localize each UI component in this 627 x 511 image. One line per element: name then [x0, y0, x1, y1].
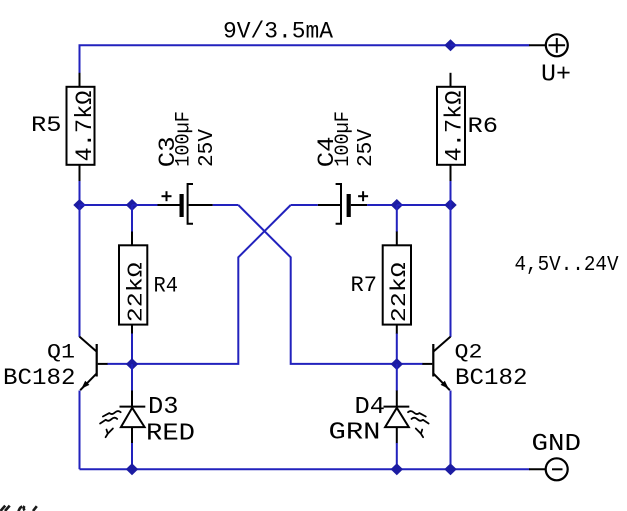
- svg-text:4,5V..24V: 4,5V..24V: [515, 253, 619, 277]
- wire: R6 bottom to node row: [450, 181, 452, 205]
- svg-text:R7: R7: [351, 273, 378, 298]
- wire: node to Q1 collector: [79, 205, 81, 337]
- capacitor C4: [318, 184, 368, 224]
- svg-text:R5: R5: [31, 113, 62, 138]
- wire: Q2 base lead: [397, 363, 423, 365]
- svg-text:25V: 25V: [354, 129, 378, 167]
- wire: crossing diagonal C3 to Q2 base: [238, 205, 396, 364]
- wire: R7 node to R6 column: [397, 204, 451, 206]
- svg-text:BC182: BC182: [3, 365, 76, 391]
- resistor R7: [383, 205, 411, 364]
- transistor Q1: [80, 337, 109, 391]
- wire: C4 left to crossing: [291, 204, 318, 206]
- wire: +9V top rail: [80, 45, 530, 205]
- wire: R4 node to C3: [132, 204, 158, 206]
- wire: node to R4 top: [80, 204, 133, 206]
- svg-text:22kΩ: 22kΩ: [389, 262, 412, 322]
- junction: top rail / R6: [444, 39, 456, 51]
- terminal U+ pin lead: [529, 44, 546, 46]
- wire: R5 bottom to node row: [79, 181, 81, 205]
- wire: ground bottom rail: [80, 468, 530, 470]
- resistor R6: [437, 73, 465, 182]
- wire: base node to D3: [131, 364, 133, 391]
- LED D4: [384, 391, 410, 444]
- svg-text:U+: U+: [541, 61, 571, 88]
- svg-text:22kΩ: 22kΩ: [126, 262, 149, 322]
- transistor Q2: [422, 337, 451, 391]
- junction: R5 / Q1 collector / C3: [73, 199, 85, 211]
- junction: R7 top: [391, 199, 403, 211]
- junction: D4 / ground rail: [391, 463, 403, 475]
- svg-text:25V: 25V: [195, 129, 219, 167]
- svg-text:Q2: Q2: [455, 341, 483, 364]
- terminal GND circle: [546, 458, 568, 480]
- terminal U+ circle: [546, 34, 568, 56]
- LED D3: [120, 391, 146, 444]
- wire: top rail to U+ terminal: [451, 44, 530, 46]
- junction: Q2 emitter / ground rail: [444, 463, 456, 475]
- LED D3 light arrows: [100, 411, 121, 437]
- wire: base node to D4: [396, 364, 398, 391]
- wire: D4 to ground rail: [396, 443, 398, 469]
- svg-text:Q1: Q1: [47, 342, 75, 365]
- wire: Q1 emitter to bottom rail: [79, 391, 81, 470]
- svg-text:4.7kΩ: 4.7kΩ: [442, 91, 469, 162]
- wire: node to Q2 collector: [450, 205, 452, 337]
- junction: Q1 base / R4 bottom / D3: [126, 358, 138, 370]
- svg-text:100µF: 100µF: [173, 111, 196, 167]
- wire: C4 right to R7 node: [367, 204, 397, 206]
- junction: R4 top: [126, 199, 138, 211]
- wire: Q2 emitter to bottom rail: [450, 391, 452, 470]
- svg-text:R6: R6: [468, 114, 499, 139]
- svg-text:BC182: BC182: [455, 365, 528, 391]
- svg-text:D4: D4: [355, 394, 386, 421]
- svg-text:4.7kΩ: 4.7kΩ: [72, 91, 99, 162]
- junction: Q2 base / R7 bottom / D4: [391, 358, 403, 370]
- svg-text:GRN: GRN: [329, 419, 381, 446]
- svg-text:R4: R4: [154, 274, 179, 299]
- terminal GND pin lead: [529, 468, 546, 470]
- wire: D3 to ground rail: [131, 443, 133, 469]
- LED D4 light arrows: [408, 411, 429, 437]
- svg-text:9V/3.5mA: 9V/3.5mA: [223, 19, 333, 45]
- capacitor C3: [158, 184, 213, 224]
- svg-text:D3: D3: [148, 394, 179, 421]
- junction: D3 / ground rail: [126, 463, 138, 475]
- wire: crossing diagonal C4 to Q1 base: [132, 205, 291, 364]
- junction: R6 bottom / Q2 collector: [444, 199, 456, 211]
- svg-text:100µF: 100µF: [332, 111, 355, 167]
- svg-text:GND: GND: [532, 431, 582, 458]
- resistor R4: [119, 205, 147, 364]
- svg-text:RED: RED: [146, 421, 195, 448]
- resistor R5: [67, 73, 95, 182]
- wire: C3 right to crossing: [213, 204, 239, 206]
- clipped caption strokes bottom-left: [1, 506, 37, 511]
- wire: Q1 base lead: [108, 363, 133, 365]
